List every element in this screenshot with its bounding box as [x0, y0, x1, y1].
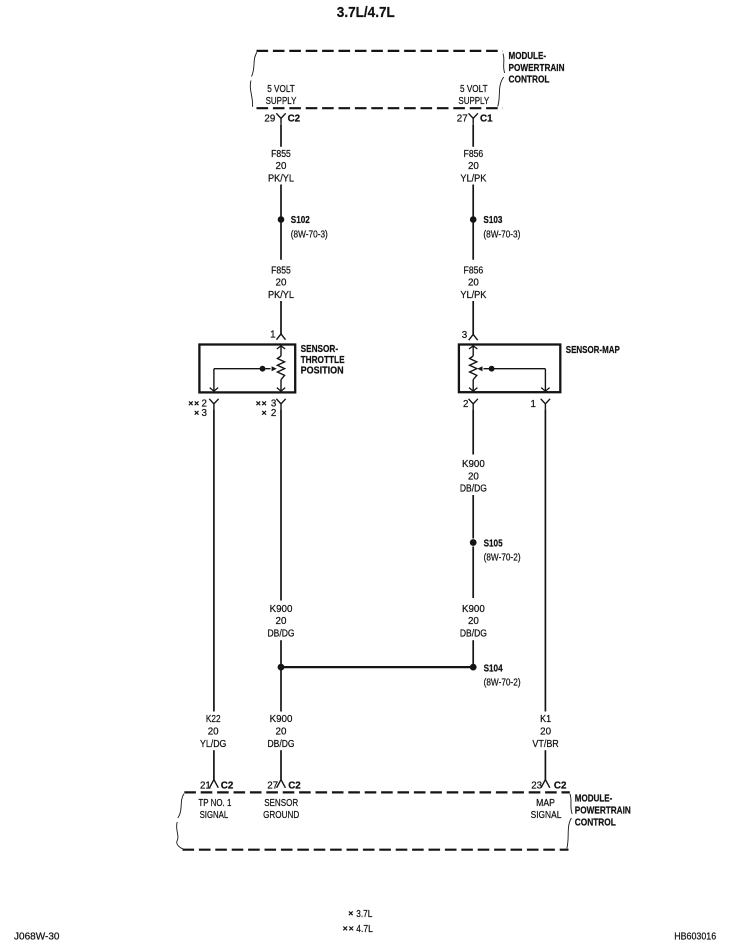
potentiometer element (throttle): [277, 346, 285, 392]
wire label K22 20 YL/DG: [200, 714, 226, 750]
wire K900 segment (to pin 27): [280, 750, 282, 779]
svg-text:F855: F855: [271, 265, 291, 276]
svg-text:C2: C2: [554, 781, 567, 792]
svg-text:PK/YL: PK/YL: [268, 173, 295, 184]
svg-text:MAP: MAP: [536, 798, 555, 809]
svg-text:MODULE-: MODULE-: [509, 51, 547, 62]
pin 1 (throttle position sensor): [270, 330, 285, 341]
svg-text:27: 27: [457, 113, 468, 124]
legend: 3.7L marker: [349, 909, 373, 920]
svg-text:SENSOR: SENSOR: [264, 798, 298, 809]
svg-text:CONTROL: CONTROL: [575, 818, 616, 829]
wire label K900 20 DB/DG (bottom): [268, 714, 295, 750]
svg-text:21: 21: [200, 781, 211, 792]
wire label K900 20 DB/DG (middle): [268, 604, 295, 640]
svg-text:20: 20: [276, 161, 287, 172]
junction dot S104 left: [278, 664, 285, 671]
splice S103: [470, 215, 521, 240]
wire K1 segment (MAP pin1 down): [544, 409, 546, 711]
svg-text:S102: S102: [291, 215, 310, 226]
wire K22 segment (to pin 21): [213, 750, 215, 779]
svg-text:S105: S105: [484, 538, 503, 549]
svg-text:POSITION: POSITION: [301, 366, 344, 377]
label sensor-map: [566, 345, 620, 356]
svg-text:(8W-70-2): (8W-70-2): [484, 678, 521, 689]
svg-text:K900: K900: [462, 604, 485, 615]
wire K22 segment (TP pin2 down): [213, 409, 215, 711]
svg-text:20: 20: [276, 278, 287, 289]
pin 3 (MAP sensor): [462, 330, 478, 341]
svg-text:20: 20: [468, 471, 479, 482]
svg-text:3.7L/4.7L: 3.7L/4.7L: [337, 4, 395, 21]
wire K1 segment (to pin 23): [544, 750, 546, 779]
svg-text:GROUND: GROUND: [263, 810, 299, 821]
wire K900 segment (middle, through S104): [280, 640, 282, 711]
svg-text:F856: F856: [464, 149, 484, 160]
wire F855 segment 2: [280, 185, 282, 260]
svg-text:DB/DG: DB/DG: [460, 484, 487, 495]
net: tp no. 1 signal: [198, 798, 231, 821]
net: 5 volt supply (left): [266, 84, 297, 107]
pin 21 connector C2 (PCM): [200, 780, 234, 792]
svg-text:F856: F856: [464, 265, 484, 276]
svg-text:3: 3: [201, 408, 207, 419]
junction dot on wiper (throttle): [260, 366, 266, 372]
svg-text:SENSOR-: SENSOR-: [301, 344, 339, 355]
potentiometer element (MAP): [469, 346, 477, 392]
wire label F856 20 YL/PK (lower): [460, 265, 486, 301]
wire F856 segment 1: [472, 124, 474, 147]
wire K900 segment (S105 down): [472, 547, 474, 599]
wire F855 segment 1: [280, 124, 282, 147]
svg-text:5 VOLT: 5 VOLT: [460, 84, 488, 95]
svg-text:3.7L: 3.7L: [356, 909, 372, 920]
svg-text:C2: C2: [288, 781, 301, 792]
svg-text:DB/DG: DB/DG: [268, 628, 295, 639]
net: 5 volt supply (right): [458, 84, 489, 107]
svg-text:MODULE-: MODULE-: [575, 793, 613, 804]
drawing number HB603016: [674, 932, 716, 943]
wire label F855 20 PK/YL (upper): [268, 149, 295, 185]
svg-text:VT/BR: VT/BR: [532, 739, 558, 750]
svg-text:20: 20: [540, 727, 551, 738]
svg-text:20: 20: [468, 616, 479, 627]
module-powertrain control (bottom) dashed box: [177, 792, 573, 849]
svg-text:20: 20: [468, 278, 479, 289]
pin 27 connector C1 (PCM): [457, 113, 493, 124]
svg-text:CONTROL: CONTROL: [509, 74, 550, 85]
svg-text:K1: K1: [540, 714, 551, 725]
wire K900 segment (MAP pin2 down): [472, 409, 474, 454]
svg-text:S104: S104: [484, 663, 503, 674]
wire K900 segment (right, into S104): [472, 640, 474, 667]
svg-text:DB/DG: DB/DG: [268, 739, 295, 750]
net: sensor ground: [263, 798, 299, 821]
svg-text:F855: F855: [271, 149, 291, 160]
svg-text:POWERTRAIN: POWERTRAIN: [509, 63, 565, 74]
svg-text:POWERTRAIN: POWERTRAIN: [575, 805, 631, 816]
svg-text:1: 1: [270, 330, 275, 341]
svg-text:HB603016: HB603016: [674, 932, 716, 943]
svg-text:2: 2: [271, 408, 276, 419]
svg-text:(8W-70-3): (8W-70-3): [291, 229, 328, 240]
svg-text:3: 3: [462, 330, 468, 341]
svg-text:(8W-70-3): (8W-70-3): [483, 229, 520, 240]
title 3.7L/4.7L: [337, 4, 395, 21]
wire F856 segment 3: [472, 301, 474, 334]
svg-text:20: 20: [276, 727, 287, 738]
wire label K900 20 DB/DG (right lower): [460, 604, 487, 640]
label sensor-throttle position: [301, 344, 345, 377]
svg-text:DB/DG: DB/DG: [460, 628, 487, 639]
wire label K1 20 VT/BR: [532, 714, 558, 750]
module-powertrain control (top) dashed box: [250, 51, 504, 108]
svg-text:THROTTLE: THROTTLE: [301, 355, 345, 366]
splice S102: [278, 215, 328, 240]
svg-text:YL/PK: YL/PK: [460, 290, 486, 301]
svg-text:C1: C1: [480, 113, 493, 124]
svg-text:C2: C2: [221, 781, 234, 792]
svg-text:4.7L: 4.7L: [356, 924, 373, 935]
splice S105: [470, 538, 521, 563]
svg-text:YL/DG: YL/DG: [200, 739, 226, 750]
wiper arm (throttle): [210, 366, 277, 391]
pin 3/2 (throttle, right): [256, 399, 285, 419]
wire label F855 20 PK/YL (lower): [268, 265, 295, 301]
svg-text:YL/PK: YL/PK: [460, 173, 486, 184]
splice S104: [470, 663, 521, 688]
wire K900 segment (TP pin3 down): [280, 409, 282, 600]
svg-text:PK/YL: PK/YL: [268, 290, 295, 301]
svg-text:2: 2: [463, 399, 468, 410]
pin 27 connector C2 (PCM): [267, 780, 301, 792]
svg-text:SIGNAL: SIGNAL: [531, 810, 562, 821]
wire label K900 20 DB/DG (right upper): [460, 459, 487, 495]
svg-text:S103: S103: [483, 215, 502, 226]
wire label F856 20 YL/PK (upper): [460, 149, 486, 185]
svg-text:K900: K900: [270, 604, 293, 615]
svg-text:SUPPLY: SUPPLY: [266, 96, 297, 107]
junction dot on wiper (MAP): [489, 366, 495, 372]
sensor-map box U2: [459, 345, 560, 393]
svg-text:K900: K900: [462, 459, 485, 470]
pin 23 connector C2 (PCM): [531, 780, 567, 792]
wire F855 segment 3: [280, 301, 282, 334]
wiper arm (MAP): [477, 366, 549, 391]
svg-text:K900: K900: [270, 714, 293, 725]
label module-powertrain control (bottom): [575, 793, 631, 828]
svg-text:29: 29: [264, 113, 275, 124]
pin 29 connector C2 (PCM): [264, 113, 300, 124]
svg-text:20: 20: [208, 727, 219, 738]
svg-text:K22: K22: [206, 714, 221, 725]
svg-text:J068W-30: J068W-30: [14, 932, 60, 943]
svg-text:SUPPLY: SUPPLY: [458, 96, 489, 107]
svg-text:SIGNAL: SIGNAL: [200, 810, 229, 821]
wire F856 segment 2: [472, 185, 474, 260]
svg-text:20: 20: [276, 616, 287, 627]
svg-text:23: 23: [531, 781, 542, 792]
sensor-throttle position box U1: [199, 345, 295, 393]
pin 1 (MAP): [531, 399, 551, 410]
splice S104 bus wire: [281, 666, 473, 668]
pin 2/3 (throttle, left): [189, 399, 219, 419]
net: map signal: [531, 798, 562, 821]
svg-text:TP NO. 1: TP NO. 1: [198, 798, 231, 809]
wire K900 segment (to S105): [472, 495, 474, 539]
label module-powertrain control (top): [509, 51, 565, 85]
drawing number J068W-30: [14, 932, 60, 943]
svg-text:5 VOLT: 5 VOLT: [267, 84, 295, 95]
pin 2 (MAP): [463, 399, 478, 410]
svg-text:C2: C2: [288, 113, 301, 124]
svg-text:1: 1: [531, 399, 536, 410]
legend: 4.7L marker: [343, 924, 373, 935]
svg-text:27: 27: [267, 781, 278, 792]
svg-text:SENSOR-MAP: SENSOR-MAP: [566, 345, 620, 356]
svg-text:(8W-70-2): (8W-70-2): [484, 553, 521, 564]
svg-text:20: 20: [468, 161, 479, 172]
